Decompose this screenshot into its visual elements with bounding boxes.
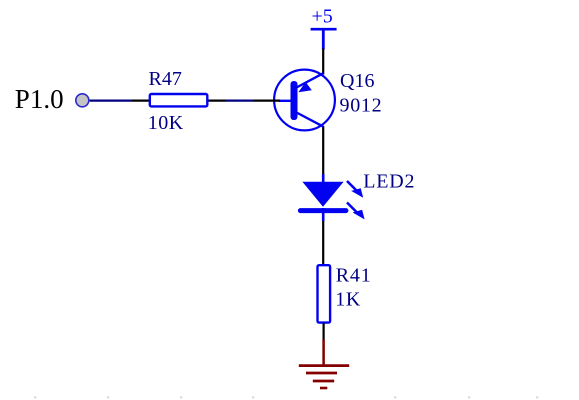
svg-text:P1.0: P1.0 — [15, 84, 64, 114]
resistor R47 — [150, 94, 208, 106]
transistor Q16 base pin — [254, 99, 281, 101]
svg-text:1K: 1K — [335, 289, 361, 311]
node pad P1.0 — [76, 94, 89, 107]
wire LED2 to R41 — [322, 221, 324, 265]
svg-text:10K: 10K — [148, 112, 184, 134]
wire pad to R47 — [90, 99, 132, 101]
power +5 — [311, 5, 337, 49]
svg-text:9012: 9012 — [340, 94, 383, 116]
LED LED2 — [300, 174, 364, 221]
resistor R41 — [318, 265, 331, 322]
ground — [299, 340, 349, 389]
resistor R47 pin 1 — [132, 99, 150, 101]
svg-text:+5: +5 — [312, 5, 333, 27]
svg-text:LED2: LED2 — [363, 171, 415, 193]
svg-text:R47: R47 — [149, 68, 182, 90]
svg-text:Q16: Q16 — [340, 70, 374, 92]
transistor Q16 — [274, 70, 335, 131]
wire R47 to Q16 base — [226, 99, 254, 101]
wire Q16 collector to LED2 — [322, 126, 324, 175]
resistor R41 pin 2 / wire to ground — [323, 323, 325, 340]
resistor R47 pin 2 — [209, 99, 226, 101]
faint cropped text remnants at bottom edge — [34, 397, 538, 399]
wire +5 to Q16 emitter — [322, 49, 324, 75]
svg-text:R41: R41 — [336, 265, 372, 287]
